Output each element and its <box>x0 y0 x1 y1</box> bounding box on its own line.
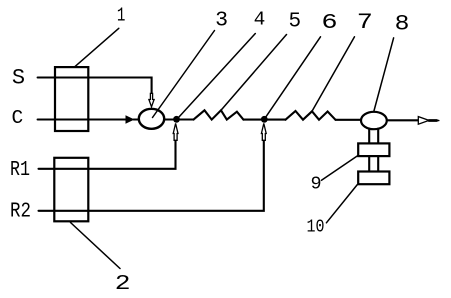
svg-text:3: 3 <box>215 9 228 33</box>
svg-text:1: 1 <box>117 4 126 26</box>
svg-text:9: 9 <box>311 174 322 195</box>
svg-text:R2: R2 <box>10 200 31 224</box>
svg-text:8: 8 <box>395 11 410 36</box>
svg-text:C: C <box>12 107 24 129</box>
svg-text:6: 6 <box>321 11 337 35</box>
svg-text:4: 4 <box>254 9 266 31</box>
svg-text:10: 10 <box>307 217 325 238</box>
svg-text:7: 7 <box>357 9 373 35</box>
svg-text:S: S <box>12 66 25 91</box>
svg-text:5: 5 <box>289 10 302 33</box>
svg-text:2: 2 <box>115 273 131 296</box>
svg-text:R1: R1 <box>10 158 30 182</box>
